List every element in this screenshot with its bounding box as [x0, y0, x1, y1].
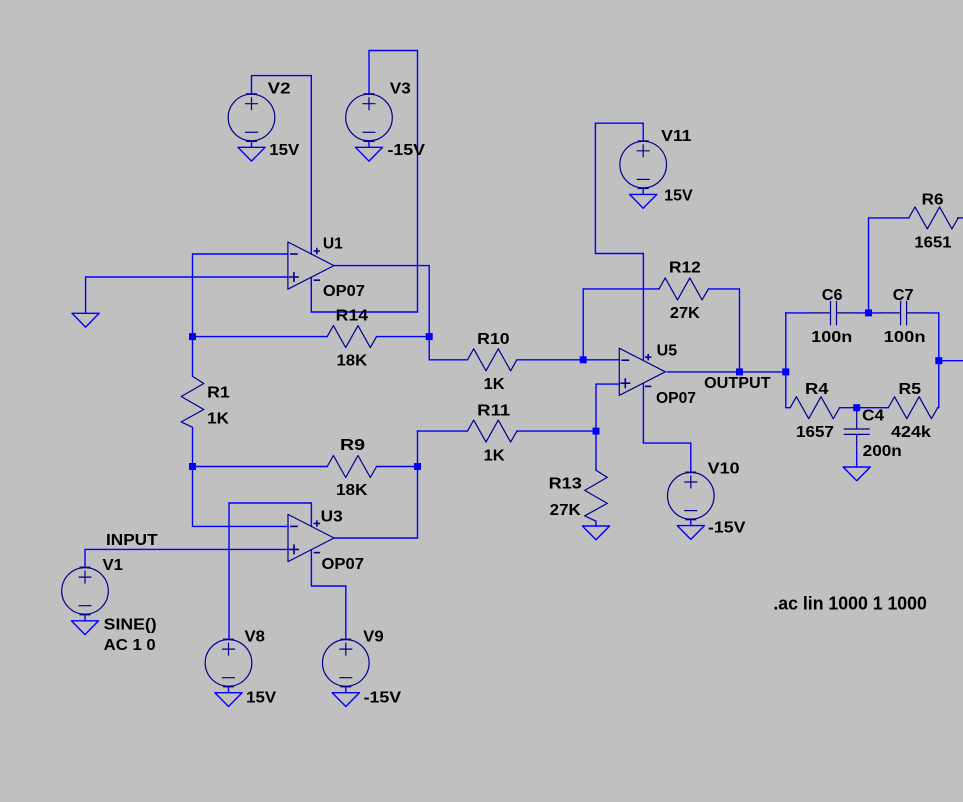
svg-text:-15V: -15V	[388, 142, 426, 159]
svg-text:R1: R1	[207, 384, 230, 401]
svg-text:1651: 1651	[914, 235, 952, 252]
svg-text:-15V: -15V	[708, 519, 746, 536]
svg-text:-15V: -15V	[364, 690, 402, 707]
svg-text:1657: 1657	[796, 424, 834, 441]
svg-text:.ac lin 1000 1 1000: .ac lin 1000 1 1000	[773, 594, 926, 614]
svg-text:27K: 27K	[550, 502, 582, 519]
svg-text:OP07: OP07	[656, 390, 696, 407]
svg-text:U1: U1	[323, 236, 343, 253]
svg-text:1K: 1K	[484, 448, 506, 465]
svg-text:V9: V9	[363, 628, 384, 645]
svg-text:V1: V1	[103, 557, 124, 574]
svg-text:OP07: OP07	[323, 283, 365, 300]
svg-text:V10: V10	[708, 461, 740, 478]
svg-text:OUTPUT: OUTPUT	[704, 375, 771, 392]
svg-text:15V: 15V	[664, 188, 693, 205]
svg-text:U3: U3	[321, 509, 343, 526]
svg-text:V11: V11	[661, 128, 692, 145]
svg-text:R4: R4	[805, 381, 829, 398]
svg-text:18K: 18K	[337, 352, 369, 369]
svg-text:27K: 27K	[670, 305, 701, 322]
svg-text:100n: 100n	[811, 329, 852, 346]
svg-text:C7: C7	[893, 287, 914, 304]
svg-text:INPUT: INPUT	[106, 532, 158, 549]
svg-text:OP07: OP07	[322, 556, 365, 573]
svg-text:R9: R9	[340, 437, 365, 454]
svg-text:R14: R14	[336, 307, 369, 324]
svg-text:V8: V8	[245, 628, 266, 645]
svg-text:C4: C4	[862, 407, 884, 424]
svg-text:R12: R12	[669, 259, 701, 276]
svg-text:200n: 200n	[863, 443, 902, 460]
svg-text:18K: 18K	[336, 482, 368, 499]
svg-text:R5: R5	[899, 381, 922, 398]
svg-text:V3: V3	[390, 80, 411, 97]
svg-text:V2: V2	[268, 80, 291, 97]
svg-text:R10: R10	[477, 331, 509, 348]
svg-text:AC 1 0: AC 1 0	[104, 637, 156, 654]
svg-text:1K: 1K	[207, 410, 230, 427]
svg-text:424k: 424k	[891, 424, 931, 441]
svg-text:1K: 1K	[484, 376, 506, 393]
svg-text:SINE(): SINE()	[104, 616, 157, 633]
svg-text:U5: U5	[657, 343, 678, 360]
svg-text:R6: R6	[922, 191, 944, 208]
svg-text:C6: C6	[822, 287, 843, 304]
svg-text:15V: 15V	[246, 690, 277, 707]
svg-text:R11: R11	[477, 403, 510, 420]
svg-text:R13: R13	[549, 476, 583, 493]
svg-text:15V: 15V	[269, 142, 300, 159]
svg-text:100n: 100n	[884, 329, 926, 346]
